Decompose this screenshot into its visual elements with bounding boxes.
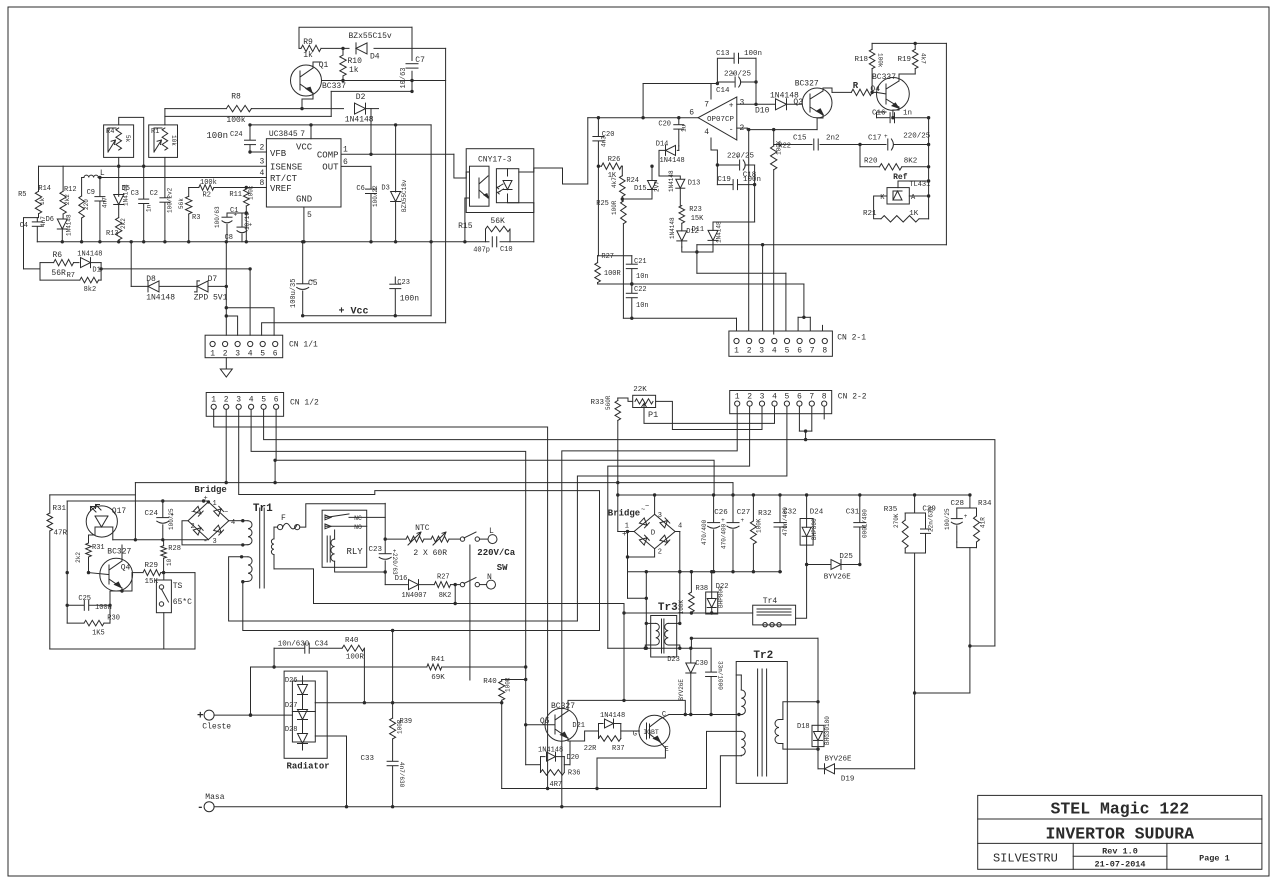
svg-text:D: D	[651, 530, 656, 538]
svg-text:Tr4: Tr4	[763, 597, 778, 606]
svg-text:D4: D4	[370, 53, 380, 62]
svg-text:4: 4	[260, 169, 265, 178]
resistor R14	[62, 166, 64, 191]
svg-text:SILVESTRU: SILVESTRU	[993, 852, 1058, 866]
bus CN1/2 pin5 y439.6	[264, 409, 995, 646]
svg-text:R30: R30	[107, 615, 120, 623]
svg-text:BC327: BC327	[107, 547, 131, 556]
opto LED inner box	[496, 169, 518, 203]
svg-text:1N4148: 1N4148	[77, 251, 102, 259]
svg-text:1n: 1n	[903, 110, 912, 118]
svg-text:D14: D14	[656, 141, 669, 149]
svg-text:100k: 100k	[200, 179, 217, 187]
diode D2 1N4148	[355, 103, 366, 114]
right vertical rail x928.6	[928, 118, 930, 219]
capacitor C4 4n7	[36, 218, 38, 222]
resistor R27 100R vertical	[597, 256, 599, 263]
Tr2 upper left winding	[739, 714, 741, 716]
resistor R13 2k2	[116, 218, 122, 240]
svg-text:220/25: 220/25	[903, 133, 931, 141]
svg-text:2: 2	[224, 396, 229, 405]
wire C34 left leg down	[273, 648, 275, 667]
svg-text:1: 1	[735, 392, 740, 401]
svg-text:R40: R40	[345, 637, 359, 645]
suppressor D18	[812, 725, 824, 746]
svg-text:R34: R34	[978, 500, 992, 508]
diode D28	[298, 734, 308, 744]
resistor R26 1K	[598, 165, 601, 167]
terminal Masa -	[204, 802, 214, 812]
capacitor C25 100n	[67, 604, 84, 606]
svg-text:D1: D1	[92, 267, 100, 275]
svg-text:Q4: Q4	[121, 564, 131, 573]
suppressor D24	[806, 495, 808, 519]
diode D27	[298, 710, 308, 720]
Tr1 lower left winding	[242, 556, 248, 558]
svg-text:100/25: 100/25	[168, 508, 175, 530]
wire radiator D28 to Masa	[315, 736, 346, 807]
bridge rectifier B1	[188, 502, 229, 540]
svg-text:D11: D11	[691, 226, 704, 234]
capacitor C23b 220/63	[379, 553, 391, 555]
wire pin2bus leg x135.4	[134, 483, 136, 540]
svg-text:69K: 69K	[431, 674, 445, 682]
resistor R39 100R	[392, 631, 394, 719]
svg-text:5: 5	[260, 350, 265, 359]
svg-text:R8: R8	[231, 93, 241, 102]
svg-text:C26: C26	[714, 509, 728, 517]
diode D19 BYV26E	[825, 764, 835, 774]
svg-text:220V/Ca: 220V/Ca	[477, 548, 515, 558]
R35/C29 bottom tie	[904, 548, 906, 553]
capacitor C16 1n	[877, 117, 891, 119]
diode D21 with R37 22R	[598, 724, 600, 739]
node R5 bottom jog	[24, 214, 39, 269]
capacitor C14 220/25	[717, 81, 734, 83]
svg-text:3: 3	[658, 512, 662, 520]
svg-text:-: -	[729, 126, 734, 135]
wire Tr1 lower-top to pin5 line y621	[229, 557, 578, 621]
wire CNY net to R26 chain	[588, 117, 599, 119]
svg-text:100K: 100K	[756, 518, 763, 533]
svg-text:R21: R21	[863, 210, 877, 218]
svg-text:10n: 10n	[636, 273, 649, 281]
svg-text:A: A	[911, 194, 916, 202]
wire section bottom y244.7	[697, 244, 947, 246]
wire opto LED bottom	[508, 194, 534, 203]
svg-text:6: 6	[797, 392, 802, 401]
svg-text:INVERTOR SUDURA: INVERTOR SUDURA	[1046, 825, 1195, 844]
svg-text:D2: D2	[356, 93, 366, 102]
diode D16 1N4007	[385, 584, 407, 586]
svg-text:470n/400: 470n/400	[782, 507, 789, 536]
svg-text:SW: SW	[497, 563, 508, 573]
wire relay NC right leg x385.2	[367, 503, 386, 517]
svg-text:R4: R4	[106, 128, 114, 136]
svg-text:R32: R32	[758, 510, 772, 518]
svg-text:R27: R27	[601, 253, 614, 261]
svg-text:33n/1000: 33n/1000	[716, 661, 723, 690]
capacitor C19 100n	[717, 184, 733, 186]
svg-text:ISENSE: ISENSE	[270, 163, 302, 173]
junction R right Q4 base	[870, 91, 873, 94]
svg-text:1N4148: 1N4148	[660, 157, 685, 165]
wire C15 C17 row y144.5	[774, 144, 812, 146]
resistor R23 15K	[679, 206, 685, 224]
capacitor C28 100/25 with R34	[969, 495, 971, 508]
op-amp pin4 stub	[711, 138, 717, 185]
svg-text:D20: D20	[567, 754, 580, 762]
svg-text:7: 7	[809, 392, 814, 401]
svg-text:470/400: 470/400	[721, 523, 728, 549]
bus CN1/2 pin6 y460.3	[276, 409, 714, 495]
VCC rail y124.9	[250, 124, 431, 126]
capacitor C29 22n/630	[921, 528, 931, 530]
diode D26	[298, 685, 308, 695]
svg-text:CN 2-1: CN 2-1	[837, 333, 866, 342]
svg-text:100u/35: 100u/35	[290, 279, 298, 308]
wire R26 to R24	[620, 165, 623, 167]
wire bridge1 AC right to Tr1 upper winding	[229, 520, 243, 522]
svg-text:4: 4	[772, 347, 777, 356]
wire bus right end up to opto	[533, 203, 535, 242]
svg-text:1k: 1k	[39, 197, 46, 205]
wire Masa bus	[214, 806, 720, 808]
bus CN1/2 pin3 y494.5 to Tr1 lower-bottom line	[239, 409, 600, 630]
svg-text:4: 4	[772, 392, 777, 401]
svg-text:C22: C22	[634, 286, 647, 294]
bus CN1/2 pin1 y427	[214, 409, 548, 788]
diode D20 with R36 4R7	[540, 757, 542, 773]
resistor R11	[245, 188, 247, 190]
svg-text:100n: 100n	[206, 131, 228, 141]
trimmer R4 box	[104, 125, 134, 157]
resistor R21 1K	[881, 216, 919, 222]
wire left leg x250.5	[250, 667, 252, 715]
svg-text:100K: 100K	[678, 600, 685, 615]
wire right rail x946.4	[945, 43, 947, 244]
wire bridge1 AC left jog to Tr1 upper winding bottom	[182, 521, 243, 545]
svg-text:R41: R41	[431, 656, 445, 664]
resistor R	[851, 89, 872, 95]
svg-text:C23: C23	[368, 546, 382, 554]
svg-text:2k2: 2k2	[120, 218, 127, 229]
IGBT Q6	[639, 715, 670, 746]
svg-text:4R7: 4R7	[550, 781, 563, 789]
svg-text:1: 1	[211, 396, 216, 405]
diode D23 BYV26E	[686, 663, 696, 673]
svg-text:100n: 100n	[400, 294, 419, 303]
wire x431 Vcc leg	[430, 125, 432, 316]
svg-text:BYV26E: BYV26E	[824, 574, 852, 582]
wire bridge2 right	[675, 531, 680, 533]
svg-text:407p: 407p	[473, 247, 490, 255]
wire pin3 jog to pin2 vertical	[226, 316, 237, 335]
svg-text:100/22: 100/22	[372, 185, 379, 207]
svg-text:C13: C13	[716, 50, 730, 58]
DC top bus y495	[618, 494, 970, 496]
photo thyristor Q17	[86, 506, 117, 537]
aux section bottom edge	[50, 648, 195, 650]
svg-text:22K: 22K	[633, 386, 647, 394]
svg-text:22n/630: 22n/630	[928, 506, 935, 532]
svg-text:C30: C30	[695, 660, 708, 668]
svg-text:BC337: BC337	[872, 73, 896, 82]
wire opto transistor collector	[466, 171, 469, 173]
capacitor C2	[164, 197, 166, 199]
svg-text:1: 1	[213, 500, 217, 508]
capacitor C33 4n7/630	[387, 760, 398, 762]
svg-text:4: 4	[249, 396, 254, 405]
svg-text:NTC: NTC	[415, 524, 430, 533]
wire D20 right stub	[564, 764, 570, 766]
capacitor C30 33n/1000	[710, 648, 712, 672]
svg-text:R24: R24	[626, 177, 639, 185]
svg-text:8: 8	[822, 347, 827, 356]
svg-text:D28: D28	[285, 726, 298, 734]
wire C25 right to Q4b collector leg	[109, 591, 111, 605]
svg-text:R23: R23	[689, 206, 702, 214]
connector CN2-1	[729, 331, 833, 356]
wire Tr1 lower-bottom to pin3 line y630.5	[243, 582, 600, 631]
diode D6 1N4148	[62, 214, 64, 219]
resistor R2 100k	[199, 185, 214, 191]
resistor R22 100K	[773, 130, 775, 146]
diode D8 1N4148	[148, 281, 159, 292]
wire x67.2 down	[66, 501, 68, 623]
svg-text:6: 6	[343, 158, 348, 167]
relay box RLY	[322, 510, 367, 567]
wire D20 left to base leg	[526, 764, 541, 766]
resistor R8	[226, 105, 251, 111]
svg-text:VFB: VFB	[270, 149, 287, 159]
svg-text:1K: 1K	[909, 210, 919, 218]
svg-text:G: G	[633, 731, 637, 739]
resistor R7 8k2	[39, 275, 41, 280]
wire R4 top loop to ISENSE	[119, 117, 144, 166]
wire R33 top to P1	[618, 398, 633, 401]
svg-text:4: 4	[248, 350, 253, 359]
svg-text:1N4148: 1N4148	[716, 221, 723, 243]
svg-text:C34: C34	[315, 641, 329, 649]
svg-text:D8: D8	[146, 275, 156, 284]
svg-text:Page 1: Page 1	[1199, 854, 1230, 864]
wire bridge2 plus left	[618, 531, 634, 533]
svg-text:D15: D15	[634, 185, 647, 193]
wire D12 D11 join y252	[682, 247, 713, 252]
wire D23 leg	[690, 648, 692, 663]
svg-text:1N4148: 1N4148	[600, 712, 625, 720]
svg-text:C10: C10	[500, 246, 513, 254]
svg-text:Rev 1.0: Rev 1.0	[1102, 847, 1138, 857]
svg-text:6: 6	[274, 396, 279, 405]
svg-text:Q3: Q3	[793, 98, 803, 107]
svg-text:100R: 100R	[346, 654, 365, 662]
svg-text:R19: R19	[897, 56, 911, 64]
op-amp U3 OP07CP triangle	[698, 97, 737, 140]
wire R33 bottom long leg	[617, 420, 619, 531]
wire y648.2 Tr3 bottom to D23 C30	[608, 647, 711, 649]
diode D7 ZPD 5V1	[197, 281, 208, 292]
svg-text:1: 1	[734, 347, 739, 356]
svg-text:C27: C27	[737, 509, 751, 517]
svg-text:R40: R40	[483, 678, 497, 686]
wire riser x250.5 to C34 row	[249, 713, 252, 716]
Tr3 left bottom lead	[645, 645, 655, 648]
wire x445.6 +Vcc right leg	[445, 48, 447, 322]
svg-text:D10: D10	[755, 107, 770, 116]
op-amp -input wire	[737, 127, 747, 129]
Tr1 core	[259, 508, 261, 588]
wire pin3 leg	[762, 245, 764, 331]
wire Q4b collector to R29	[121, 588, 123, 591]
svg-text:4n3: 4n3	[601, 136, 608, 147]
svg-text:2: 2	[658, 549, 662, 557]
svg-text:3: 3	[760, 392, 765, 401]
svg-text:R10: R10	[348, 57, 363, 66]
CN2-2 pin8 stub	[823, 406, 825, 419]
resistor R33 560R	[617, 398, 619, 401]
wire D23 node to D18 feed y636	[690, 638, 692, 648]
wire y318.2 to pin1	[623, 317, 736, 319]
svg-text:220/25: 220/25	[727, 153, 755, 161]
svg-text:CN 1/1: CN 1/1	[289, 340, 318, 349]
relay NC contact	[326, 514, 349, 517]
wire D27 output bus y702.7	[315, 702, 501, 704]
bridge rectifier B2	[634, 514, 675, 548]
capacitor C26 470/400	[713, 495, 715, 522]
wire R31b to Q4b base	[88, 557, 90, 573]
svg-text:100k: 100k	[226, 116, 245, 125]
svg-text:N: N	[487, 573, 492, 582]
svg-text:1k: 1k	[303, 51, 313, 60]
Tr3 right leads	[668, 622, 680, 624]
svg-text:1: 1	[210, 350, 215, 359]
wire bridge2 top to bus495	[654, 495, 656, 514]
resistor R20 8K2	[859, 145, 861, 167]
svg-text:ZPD 5V1: ZPD 5V1	[194, 293, 228, 302]
svg-text:Radiator: Radiator	[287, 762, 330, 772]
svg-text:RT/CT: RT/CT	[270, 174, 298, 184]
svg-text:C3: C3	[131, 190, 139, 198]
C28/R34 bottom tie	[956, 542, 958, 548]
svg-text:C33: C33	[360, 755, 374, 763]
resistor R3	[188, 188, 190, 197]
svg-text:+: +	[197, 711, 204, 723]
wire D10 to Q3 base	[787, 103, 803, 105]
capacitor C22 10n	[631, 284, 633, 293]
svg-text:C21: C21	[634, 258, 647, 266]
svg-text:8: 8	[822, 392, 827, 401]
capacitor C13 100n	[717, 58, 734, 83]
relay coil	[326, 536, 328, 562]
resistor R38 100K	[690, 572, 692, 592]
svg-text:D16: D16	[395, 575, 408, 583]
svg-text:C23: C23	[397, 279, 410, 287]
bus CN2-2 pins6-7 bracket to y439.6	[798, 406, 800, 431]
svg-text:100n: 100n	[744, 50, 762, 58]
resistor R19 4k7	[914, 43, 916, 49]
resistor R40 100R horizontal	[342, 645, 364, 651]
svg-text:1K5: 1K5	[92, 630, 105, 638]
capacitor C6	[366, 188, 377, 190]
wire x226.3 vertical to CN1/1 pin2	[225, 242, 227, 335]
svg-text:1N4148: 1N4148	[669, 217, 676, 239]
svg-text:15K: 15K	[691, 215, 704, 223]
svg-text:65*C: 65*C	[173, 598, 192, 607]
svg-text:100R: 100R	[611, 200, 618, 215]
svg-text:47R: 47R	[54, 530, 68, 538]
RT/CT wire y177.5	[82, 177, 84, 179]
svg-text:7: 7	[300, 130, 305, 139]
resistor R40b 100R vertical	[501, 680, 503, 682]
wire Q5 collector to D21	[568, 731, 599, 741]
svg-text:6: 6	[689, 109, 694, 118]
IC U1 UC3845 box	[266, 139, 341, 207]
resistor R27b 8K2	[419, 584, 434, 586]
svg-text:10/63: 10/63	[400, 67, 408, 88]
wire bridge1 minus W1 y539.8	[113, 539, 209, 541]
svg-text:R11: R11	[229, 191, 242, 199]
svg-text:D18: D18	[797, 723, 810, 731]
TL431 K wire to R21	[874, 196, 887, 219]
suppressor D22	[711, 572, 713, 592]
op-amp pin7 stub	[710, 84, 712, 100]
wire pin5 route	[696, 245, 698, 252]
resistor R31b 2k2	[86, 543, 92, 557]
pin 7 VCC stub	[310, 125, 312, 139]
junction bus-GND pin5	[302, 240, 305, 243]
capacitor C21 10n	[631, 256, 633, 264]
wire IGBT collector	[660, 715, 669, 720]
diode D4 BZX55C15v	[356, 43, 367, 54]
svg-text:R27: R27	[437, 574, 450, 582]
svg-text:C9: C9	[87, 189, 95, 197]
svg-text:R33: R33	[590, 399, 604, 407]
svg-text:8K2: 8K2	[904, 158, 918, 166]
svg-text:R26: R26	[608, 156, 621, 164]
wire P1 wiper to CN2-2 pin4	[644, 406, 775, 423]
svg-text:F: F	[281, 514, 286, 523]
svg-text:~: ~	[191, 509, 195, 517]
wire Q4 base from R	[877, 92, 887, 94]
svg-text:D7: D7	[208, 275, 218, 284]
TL431 A wire	[909, 195, 928, 197]
wire Q3 emitter down	[822, 115, 824, 118]
svg-text:10n: 10n	[636, 302, 649, 310]
svg-text:Cleste: Cleste	[202, 723, 231, 732]
bus CN2-2 pin1 to Masa	[562, 406, 737, 807]
resistor R29 15K	[143, 570, 161, 576]
svg-text:560R: 560R	[605, 395, 612, 410]
svg-text:C15: C15	[793, 135, 807, 143]
bus CN1/2 pin2 y482.6	[225, 409, 227, 482]
capacitor C31 1000/400	[859, 495, 861, 522]
wire x164.9 R8 left down to trimmer R1	[164, 109, 166, 125]
wire v1 plus rail y501	[67, 500, 209, 502]
wire x331 down	[330, 91, 332, 116]
NTC resistors 2 x 60R	[385, 538, 406, 540]
wire COMP to optocoupler	[371, 153, 454, 155]
bus CN2-2 pin5 y476 to Tr1 lower-top line	[577, 406, 787, 621]
diode D3 zener BZX55C18	[395, 125, 397, 192]
diode D25 BYV26E	[831, 560, 841, 570]
svg-text:OUT: OUT	[322, 163, 339, 173]
wire x598 down to R27	[597, 166, 599, 256]
pin8 stub	[822, 325, 824, 331]
Tr1 upper left winding	[243, 520, 248, 522]
svg-text:2k2: 2k2	[64, 194, 71, 205]
